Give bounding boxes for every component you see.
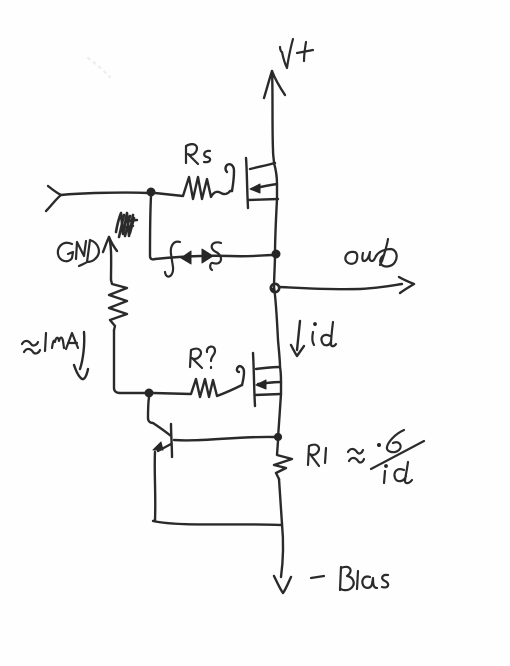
scribble above ground arrow — [116, 213, 137, 237]
power arrow V+ — [264, 71, 285, 163]
label out — [345, 239, 396, 266]
label GND — [58, 240, 99, 266]
wire lower gate — [155, 255, 273, 259]
label V+ — [280, 39, 313, 68]
label approx 1mA — [22, 333, 78, 353]
scribble crossed-out arrows — [165, 242, 221, 277]
resistor R? — [153, 366, 244, 397]
label -Bias — [311, 567, 388, 590]
label id with arrow — [291, 321, 336, 356]
resistor bias leg — [109, 280, 146, 393]
label R1 approx .6/id — [308, 430, 424, 483]
current arrow 1mA — [74, 332, 88, 379]
transistor Q1 — [148, 397, 274, 520]
ground arrow — [103, 237, 117, 280]
transistor M1 — [246, 158, 278, 208]
wire input — [46, 186, 148, 211]
transistor M2 — [253, 353, 281, 406]
wire J1 down to lower gate wire — [150, 196, 155, 259]
wire out — [280, 277, 414, 293]
node junction J4 — [274, 433, 281, 440]
wire bottom loop — [153, 520, 281, 525]
wire rail M1 to out node — [274, 163, 277, 287]
label RS — [186, 144, 210, 164]
node out — [271, 284, 279, 292]
node junction J1 — [147, 188, 155, 196]
label R? — [190, 347, 215, 368]
resistor RS — [155, 164, 234, 199]
resistor R1 — [274, 441, 292, 524]
wire rail out node to M2 and J4 — [274, 287, 281, 437]
power arrow -Bias — [274, 524, 291, 593]
node junction J2 — [272, 250, 280, 258]
node junction J3 — [145, 389, 153, 397]
